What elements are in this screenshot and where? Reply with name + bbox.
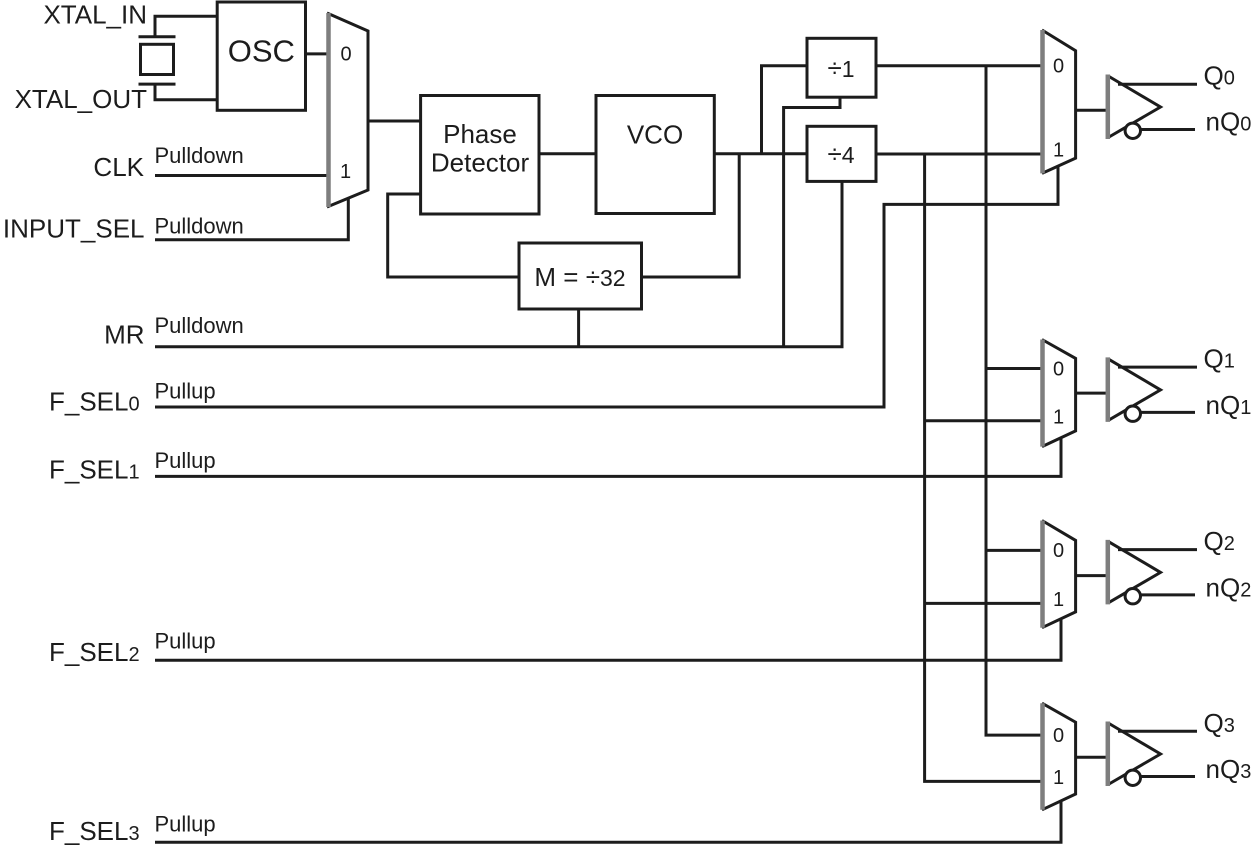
svg-text:1: 1 [1053,589,1064,611]
svg-text:0: 0 [1053,540,1064,562]
svg-text:XTAL_IN: XTAL_IN [43,0,147,30]
svg-text:Pullup: Pullup [155,448,216,473]
svg-text:MR: MR [104,320,144,350]
svg-text:Detector: Detector [431,148,530,178]
svg-text:M = ÷32: M = ÷32 [534,262,625,292]
svg-text:Pulldown: Pulldown [155,313,244,338]
svg-text:CLK: CLK [93,152,144,182]
svg-text:F_SEL3: F_SEL3 [49,816,140,846]
svg-text:0: 0 [1053,725,1064,747]
svg-text:INPUT_SEL: INPUT_SEL [3,214,145,244]
svg-text:1: 1 [1053,407,1064,429]
svg-text:Pullup: Pullup [155,379,216,404]
svg-text:0: 0 [1053,56,1064,78]
svg-text:Pulldown: Pulldown [155,214,244,239]
svg-text:Pullup: Pullup [155,812,216,837]
svg-text:F_SEL0: F_SEL0 [49,387,140,417]
svg-text:F_SEL2: F_SEL2 [49,637,140,667]
svg-text:0: 0 [1053,358,1064,380]
svg-text:OSC: OSC [228,34,295,69]
svg-text:1: 1 [1053,767,1064,789]
svg-text:÷4: ÷4 [827,139,854,169]
svg-text:XTAL_OUT: XTAL_OUT [15,84,148,114]
svg-text:Phase: Phase [443,119,517,149]
svg-text:Pullup: Pullup [155,629,216,654]
svg-text:÷1: ÷1 [827,53,854,83]
svg-text:1: 1 [340,161,351,183]
svg-text:Pulldown: Pulldown [155,143,244,168]
svg-text:VCO: VCO [627,119,683,149]
svg-text:1: 1 [1053,140,1064,162]
svg-text:F_SEL1: F_SEL1 [49,455,140,485]
svg-text:0: 0 [340,44,351,66]
